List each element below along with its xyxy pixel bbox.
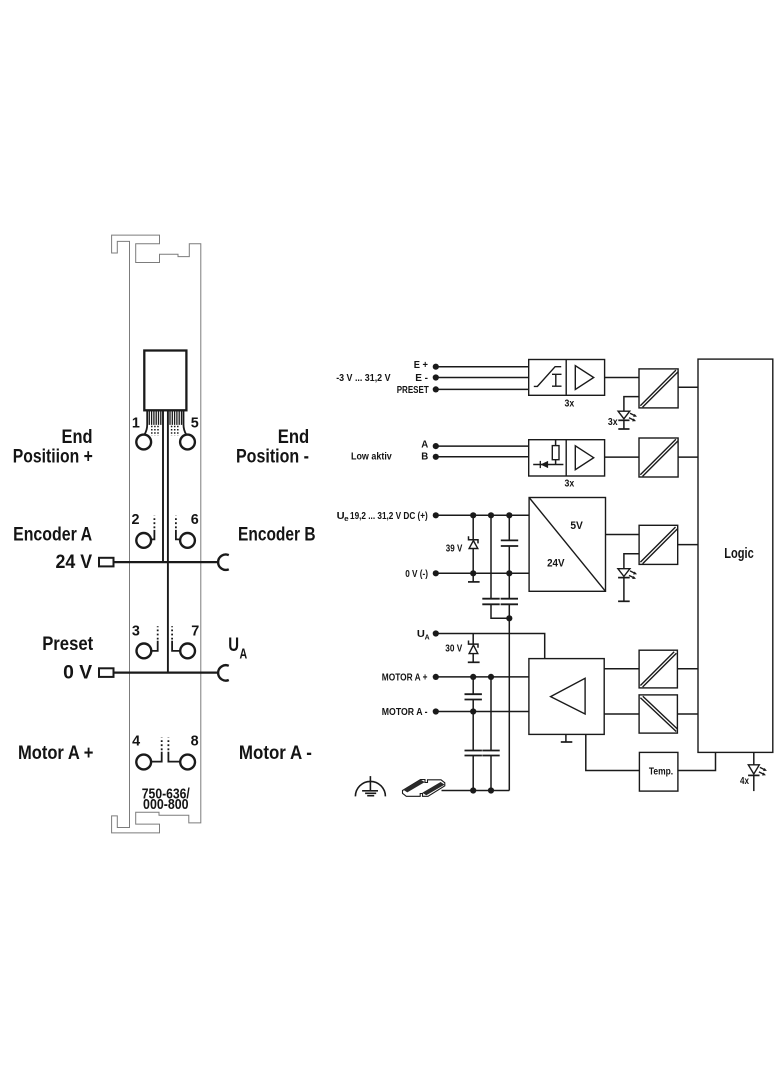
pin 7 hook xyxy=(172,641,179,651)
svg-text:6: 6 xyxy=(191,511,199,528)
junction dot MOTOR A- xyxy=(470,708,476,714)
svg-text:Position -: Position - xyxy=(236,446,309,467)
LED1 3x xyxy=(618,411,630,419)
wire Ue rail xyxy=(436,514,529,516)
terminal 0V xyxy=(433,570,439,576)
svg-text:A: A xyxy=(240,646,248,662)
logic block xyxy=(698,359,773,752)
ribbon dotted right xyxy=(172,426,178,436)
I symbol xyxy=(552,374,562,386)
capacitor C2 (Ue-PE) xyxy=(491,515,509,618)
wire MOTOR A+ xyxy=(436,676,529,678)
svg-text:30 V: 30 V xyxy=(445,643,462,655)
svg-text:0 V (-): 0 V (-) xyxy=(405,568,428,580)
svg-text:Motor A +: Motor A + xyxy=(18,743,94,764)
wire PRESET xyxy=(436,388,529,390)
PE vertical line xyxy=(508,618,510,790)
svg-text:Preset: Preset xyxy=(42,634,94,655)
LED3 4x xyxy=(753,752,755,764)
wire 0V rail xyxy=(436,572,529,574)
pin 4 circle xyxy=(136,755,151,770)
isolation square ISO3 xyxy=(639,525,678,564)
svg-text:-3 V ... 31,2 V: -3 V ... 31,2 V xyxy=(336,372,390,384)
svg-text:Logic: Logic xyxy=(724,545,754,562)
0V terminal square xyxy=(99,668,114,677)
pin 1 circle xyxy=(136,435,151,450)
wire motor to iso4 xyxy=(604,668,639,670)
svg-text:4x: 4x xyxy=(740,776,749,787)
wire motor to temp xyxy=(586,734,640,770)
terminal MOTOR A+ xyxy=(433,674,439,680)
diode symbol U2 xyxy=(533,464,563,466)
motor driver chassis stub xyxy=(565,734,567,742)
SCHEMATIC-GROUP xyxy=(336,359,773,797)
terminal E+ xyxy=(433,364,439,370)
pin 7 circle xyxy=(180,644,195,659)
LED2 arrows xyxy=(629,571,635,578)
svg-text:Low aktiv: Low aktiv xyxy=(351,450,392,462)
junction dot PE xyxy=(506,615,512,621)
LED3 arrows xyxy=(759,767,765,774)
wire U1 to iso1 xyxy=(605,377,639,379)
motor wire pair xyxy=(162,410,164,562)
svg-text:Motor A -: Motor A - xyxy=(239,743,312,764)
terminal UA xyxy=(433,630,439,636)
svg-text:3x: 3x xyxy=(608,417,618,428)
svg-text:3: 3 xyxy=(132,623,140,640)
pin 8 circle xyxy=(180,755,195,770)
wire iso3 to LED2 xyxy=(624,554,639,569)
svg-text:7: 7 xyxy=(191,623,199,640)
svg-text:U: U xyxy=(228,635,239,656)
svg-text:8: 8 xyxy=(191,732,199,749)
svg-text:B: B xyxy=(421,450,428,462)
wire dcdc to iso3 xyxy=(606,534,640,536)
MODULE-GROUP xyxy=(13,235,316,833)
svg-text:Encoder B: Encoder B xyxy=(238,525,316,546)
input block U1 xyxy=(529,360,605,396)
stub below 0V at zener xyxy=(472,573,474,582)
pin 6 hook xyxy=(176,530,180,540)
module housing outline xyxy=(112,235,201,833)
ribbon dotted left xyxy=(152,426,158,436)
pin 2 circle xyxy=(136,533,151,548)
svg-text:E +: E + xyxy=(414,359,428,371)
junction dots Ue rail xyxy=(470,512,476,518)
DIN rail symbol xyxy=(403,780,445,797)
resistor symbol U2 xyxy=(552,446,559,460)
wire iso3 to logic xyxy=(678,544,698,546)
LED1 arrows xyxy=(629,413,635,420)
connector plug xyxy=(144,351,186,411)
wire motor to iso5 xyxy=(604,713,639,715)
svg-text:24 V: 24 V xyxy=(56,552,93,573)
capacitor C1 (Ue-0V) xyxy=(508,515,510,573)
svg-text:End: End xyxy=(278,427,310,448)
svg-text:MOTOR A +: MOTOR A + xyxy=(382,671,428,683)
LED2 5V xyxy=(618,569,630,577)
pin 3 hook xyxy=(152,641,158,651)
zener D1 39V xyxy=(472,515,474,573)
input block U2 xyxy=(529,440,605,476)
pin 2 hook xyxy=(152,530,155,540)
svg-text:0 V: 0 V xyxy=(63,662,92,683)
svg-text:End: End xyxy=(62,427,93,448)
0V line xyxy=(114,671,219,673)
isolation square ISO5 xyxy=(639,695,677,733)
ribbon wires left xyxy=(149,410,161,425)
svg-text:A: A xyxy=(425,633,431,642)
wire temp to logic xyxy=(678,752,716,770)
isolation square ISO1 xyxy=(639,369,678,408)
24V line xyxy=(114,561,219,563)
24V socket xyxy=(218,555,229,570)
svg-text:1: 1 xyxy=(132,415,140,432)
junction dots MOTOR A+ xyxy=(470,674,476,680)
capacitor C6 (A+ to PE) xyxy=(490,677,492,791)
svg-text:000-800: 000-800 xyxy=(143,796,189,813)
pin 6 circle xyxy=(180,533,195,548)
ribbon wires right xyxy=(170,410,182,425)
wire UA xyxy=(436,634,545,659)
wire iso1 to LED1 xyxy=(624,397,639,412)
wire B xyxy=(436,456,529,458)
terminal B xyxy=(433,454,439,460)
terminal PRESET xyxy=(433,386,439,392)
ground rail xyxy=(442,790,510,792)
amp triangle U2 xyxy=(575,446,593,470)
svg-text:Positiion +: Positiion + xyxy=(13,446,93,467)
pin 3 circle xyxy=(137,644,152,659)
wire E+ xyxy=(436,366,529,368)
zener D2 30V xyxy=(472,634,474,663)
wire pin1 xyxy=(144,410,147,434)
svg-text:4: 4 xyxy=(132,732,141,749)
wire pin5 xyxy=(184,410,187,434)
temp block xyxy=(639,752,678,791)
capacitor C4 (A+ to A-) xyxy=(472,677,474,712)
wire E- xyxy=(436,377,529,379)
svg-text:19,2 ... 31,2 V DC (+): 19,2 ... 31,2 V DC (+) xyxy=(350,510,428,522)
svg-text:MOTOR A -: MOTOR A - xyxy=(382,706,428,718)
terminal Ue xyxy=(433,512,439,518)
amp triangle U1 xyxy=(575,366,593,390)
wire A xyxy=(436,445,529,447)
terminal MOTOR A- xyxy=(433,708,439,714)
24V terminal square xyxy=(99,558,114,567)
wire iso4 to logic xyxy=(677,668,698,670)
DC/DC converter xyxy=(529,498,605,592)
motor driver block xyxy=(529,659,604,735)
terminal E- xyxy=(433,374,439,380)
wire iso2 to logic xyxy=(678,456,698,458)
ramp symbol xyxy=(534,367,561,387)
svg-text:2: 2 xyxy=(132,511,140,528)
wire iso1 to logic xyxy=(678,386,698,388)
pin 8 hook xyxy=(168,752,179,762)
capacitor C5 (A- to PE) xyxy=(472,712,474,791)
svg-text:24V: 24V xyxy=(547,557,565,569)
pin 4 hook xyxy=(152,752,162,762)
wire iso5 to logic xyxy=(677,713,698,715)
motor driver triangle xyxy=(551,678,586,714)
svg-text:Encoder A: Encoder A xyxy=(13,525,92,546)
terminal A xyxy=(433,443,439,449)
svg-text:E -: E - xyxy=(415,372,428,384)
isolation square ISO4 xyxy=(639,650,677,688)
wire MOTOR A- xyxy=(436,711,529,713)
ground rail dots xyxy=(470,787,476,793)
isolation square ISO2 xyxy=(639,438,678,477)
svg-text:e: e xyxy=(344,514,349,523)
svg-text:3x: 3x xyxy=(565,478,575,489)
svg-text:A: A xyxy=(421,439,428,451)
svg-text:39 V: 39 V xyxy=(446,542,463,554)
capacitor C3 (0V-PE) xyxy=(508,573,510,618)
svg-text:PRESET: PRESET xyxy=(397,384,430,396)
svg-text:Temp.: Temp. xyxy=(649,765,673,777)
svg-text:5V: 5V xyxy=(570,520,583,532)
PE earth symbol xyxy=(355,781,385,796)
svg-text:3x: 3x xyxy=(565,399,575,410)
svg-text:5: 5 xyxy=(191,415,199,432)
pin 5 circle xyxy=(180,435,195,450)
0V socket xyxy=(218,665,229,680)
wire U2 to iso2 xyxy=(605,456,639,458)
junction dots 0V rail xyxy=(470,570,476,576)
